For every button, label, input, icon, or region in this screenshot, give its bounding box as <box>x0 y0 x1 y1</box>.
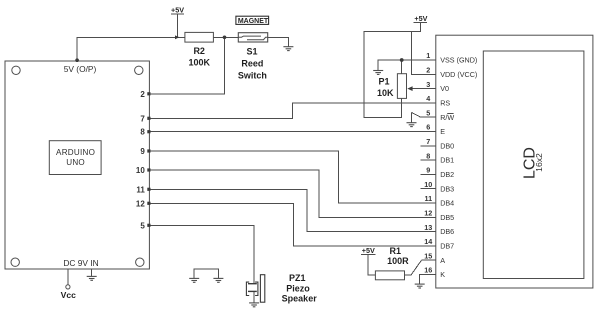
svg-text:+5V: +5V <box>414 14 427 23</box>
svg-text:DB1: DB1 <box>440 156 454 165</box>
svg-text:DB0: DB0 <box>440 141 454 150</box>
svg-text:16x2: 16x2 <box>534 153 544 172</box>
svg-text:10: 10 <box>424 180 432 189</box>
svg-text:DC 9V IN: DC 9V IN <box>63 258 98 268</box>
svg-text:DB3: DB3 <box>440 184 454 193</box>
svg-text:Switch: Switch <box>238 70 267 80</box>
svg-text:15: 15 <box>424 251 432 260</box>
svg-text:12: 12 <box>424 209 432 218</box>
svg-text:100K: 100K <box>188 58 210 68</box>
svg-text:DB7: DB7 <box>440 242 454 251</box>
svg-text:R2: R2 <box>193 46 205 56</box>
svg-text:1: 1 <box>426 51 430 60</box>
svg-text:9: 9 <box>426 166 430 175</box>
svg-text:5: 5 <box>426 108 430 117</box>
svg-text:16: 16 <box>424 266 432 275</box>
svg-text:4: 4 <box>426 94 430 103</box>
svg-text:10K: 10K <box>377 88 394 98</box>
svg-text:+5V: +5V <box>362 246 375 255</box>
svg-text:A: A <box>440 256 445 265</box>
svg-text:5: 5 <box>140 221 145 230</box>
svg-text:Piezo: Piezo <box>286 283 310 293</box>
svg-text:11: 11 <box>136 185 145 194</box>
svg-text:7: 7 <box>426 137 430 146</box>
svg-text:P1: P1 <box>378 77 389 87</box>
svg-text:+5V: +5V <box>171 6 184 15</box>
svg-text:DB5: DB5 <box>440 213 454 222</box>
svg-text:MAGNET: MAGNET <box>238 18 269 25</box>
svg-text:K: K <box>440 270 445 279</box>
svg-text:10: 10 <box>136 166 145 175</box>
svg-text:UNO: UNO <box>66 158 85 167</box>
svg-text:Vcc: Vcc <box>61 290 77 300</box>
svg-text:E: E <box>440 127 445 136</box>
svg-text:Speaker: Speaker <box>282 294 318 304</box>
svg-text:V0: V0 <box>440 84 449 93</box>
svg-text:Reed: Reed <box>241 59 263 69</box>
svg-text:VSS (GND): VSS (GND) <box>440 56 477 65</box>
svg-text:5V (O/P): 5V (O/P) <box>64 64 97 74</box>
svg-text:RS: RS <box>440 99 450 108</box>
svg-text:14: 14 <box>424 237 432 246</box>
svg-text:PZ1: PZ1 <box>289 273 306 283</box>
svg-text:7: 7 <box>140 114 145 123</box>
svg-text:3: 3 <box>426 80 430 89</box>
svg-text:8: 8 <box>140 128 145 137</box>
svg-text:12: 12 <box>136 199 145 208</box>
svg-text:11: 11 <box>424 194 432 203</box>
svg-text:DB2: DB2 <box>440 170 454 179</box>
svg-text:DB4: DB4 <box>440 199 454 208</box>
svg-text:ARDUINO: ARDUINO <box>56 148 95 157</box>
svg-text:2: 2 <box>426 66 430 75</box>
svg-text:S1: S1 <box>246 47 257 57</box>
svg-text:R/W: R/W <box>440 113 454 122</box>
svg-text:DB6: DB6 <box>440 227 454 236</box>
svg-text:100R: 100R <box>387 256 409 266</box>
svg-text:13: 13 <box>424 223 432 232</box>
svg-text:8: 8 <box>426 151 430 160</box>
svg-text:VDD (VCC): VDD (VCC) <box>440 70 477 79</box>
svg-text:6: 6 <box>426 123 430 132</box>
svg-text:2: 2 <box>140 90 145 99</box>
svg-text:9: 9 <box>140 147 145 156</box>
svg-text:R1: R1 <box>390 246 402 256</box>
